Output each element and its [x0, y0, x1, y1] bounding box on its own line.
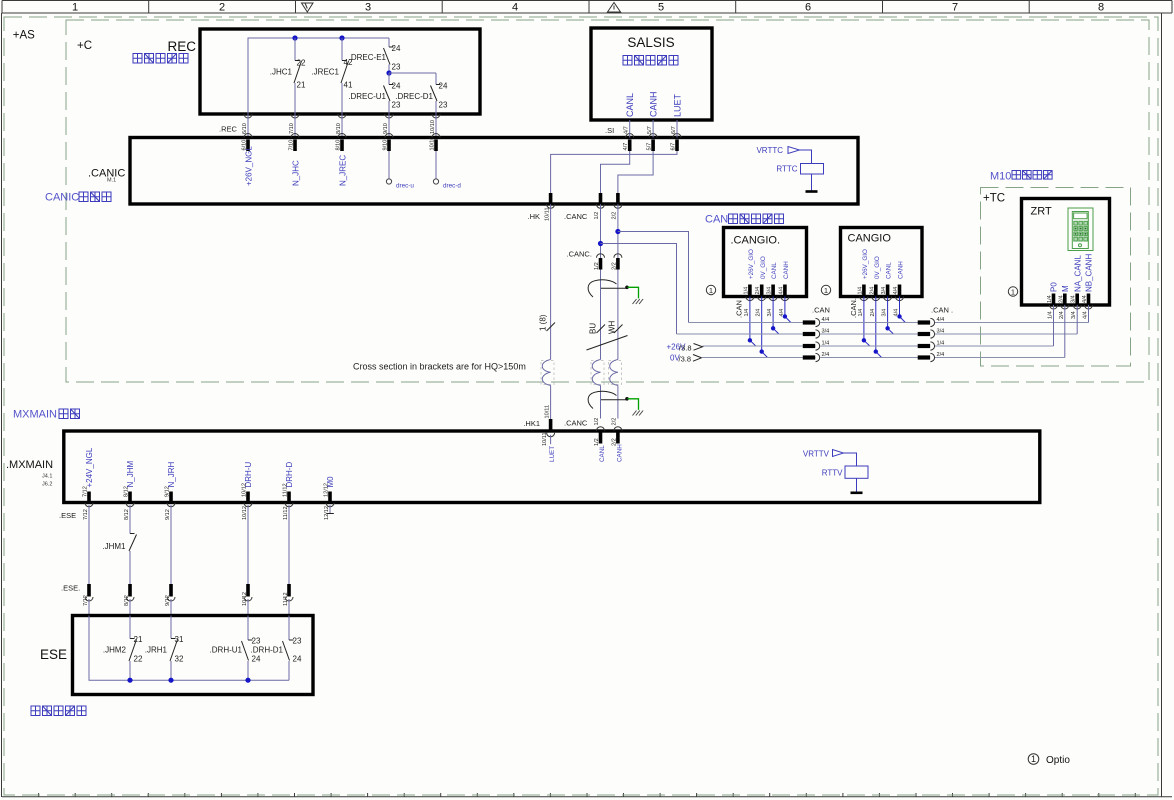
svg-text:.DREC-D1: .DREC-D1: [395, 92, 433, 101]
pin labels ZRT inside: [1047, 295, 1088, 303]
box ESE (machine room inspection box): [73, 616, 314, 695]
wires .ESE. to ESE box: [89, 599, 289, 616]
ground symbol lower: [633, 411, 644, 416]
pin bars CANIC bottom: [551, 193, 618, 204]
bus wire 4/4 CANH: [689, 322, 1089, 324]
svg-text:4/7: 4/7: [623, 143, 629, 151]
wire JRH1 lower: [170, 661, 172, 680]
svg-text:3/4: 3/4: [1071, 295, 1077, 303]
svg-text:31: 31: [175, 635, 184, 644]
svg-text:/3.8: /3.8: [679, 344, 692, 353]
svg-text:2/4: 2/4: [756, 309, 762, 317]
shield lower: [588, 391, 626, 408]
wire DREC-U1 upper: [388, 73, 390, 85]
svg-text:23: 23: [293, 637, 302, 646]
svg-text:.DREC-U1: .DREC-U1: [348, 92, 386, 101]
svg-text:ZRT: ZRT: [1031, 206, 1052, 218]
svg-text:3/4: 3/4: [1071, 311, 1077, 319]
svg-text:9/12: 9/12: [165, 595, 171, 606]
pin bars ZRT: [1054, 294, 1089, 305]
switch .DRH-D1: [283, 640, 294, 661]
pin labels MXMAIN bottom inside: [83, 483, 330, 497]
svg-text:CANH: CANH: [783, 261, 790, 279]
svg-text:24: 24: [293, 655, 302, 664]
box CANGIO: [841, 228, 923, 297]
svg-text:.CANC: .CANC: [564, 419, 588, 428]
svg-text:2/2: 2/2: [612, 418, 618, 426]
svg-text:.CAN: .CAN: [735, 300, 744, 318]
connector arcs CANIC top edge (REC side): [244, 134, 440, 138]
bottom scale ticks: [39, 793, 1136, 797]
svg-text:.JRH1: .JRH1: [145, 646, 168, 655]
svg-text:10/10: 10/10: [430, 120, 436, 134]
svg-text:MXMAIN: MXMAIN: [13, 409, 57, 421]
connector .ESE. pin bars: [89, 584, 289, 597]
connector .CANC. pin bars: [601, 258, 618, 270]
pin bars CANC lower: [601, 433, 618, 444]
box MXMAIN (main board): [64, 431, 1040, 503]
wire REC supply riser and top bus: [248, 38, 389, 114]
svg-text:1: 1: [72, 2, 78, 14]
ground RTTV: [851, 491, 863, 494]
switch .DREC-U1: [384, 85, 394, 102]
area +TC dashed border: [981, 188, 1131, 367]
svg-text:7/12: 7/12: [83, 509, 89, 520]
connector arcs CANC lower: [597, 427, 622, 431]
wire HK LUET riser: [550, 204, 552, 419]
wire JREC1 lower: [341, 83, 343, 114]
svg-text:drec-d: drec-d: [443, 183, 461, 190]
svg-text:1: 1: [824, 286, 828, 295]
svg-text:4/4: 4/4: [893, 287, 899, 295]
wire DREC-E1 upper: [388, 38, 390, 47]
svg-text:Optio: Optio: [1046, 755, 1070, 766]
shield upper earth wire: [628, 287, 639, 298]
svg-text:2/2: 2/2: [612, 262, 618, 270]
svg-text:10/11: 10/11: [544, 405, 550, 419]
svg-text:.ESE.: .ESE.: [61, 584, 80, 593]
svg-text:23: 23: [439, 101, 448, 110]
pin labels REC-CANIC outside: [242, 120, 436, 134]
wire CANH branch to bus: [618, 232, 689, 323]
ground symbol upper: [633, 299, 644, 304]
svg-text:.CAN .: .CAN .: [931, 306, 953, 315]
wire CANL riser: [600, 204, 602, 418]
wires SALSIS to CANIC: [630, 120, 677, 138]
pin bars CANGIO: [864, 285, 900, 297]
svg-text:1 (8): 1 (8): [539, 314, 548, 331]
box CANIC (car top board): [130, 138, 858, 205]
svg-text:8/10: 8/10: [336, 140, 342, 151]
svg-text:23: 23: [252, 637, 261, 646]
svg-text:2/4: 2/4: [1059, 311, 1065, 319]
pin labels below CANGIO: [858, 309, 900, 317]
pin bars CANIC top (SALSIS side): [630, 140, 677, 152]
svg-text:9/12: 9/12: [165, 509, 171, 520]
svg-text:.JHM2: .JHM2: [103, 646, 127, 655]
wire DREC-E1 lower: [388, 65, 390, 74]
svg-text:CANL: CANL: [771, 262, 778, 279]
svg-text:3: 3: [365, 2, 371, 14]
svg-text:1/2: 1/2: [594, 262, 600, 270]
svg-text:+TC: +TC: [983, 193, 1005, 205]
node bus-JREC1: [339, 35, 344, 40]
label REC chinese: [133, 54, 188, 64]
wire VRTTV to RTTV: [844, 453, 857, 466]
wires MXMAIN to ESE: [89, 505, 289, 584]
svg-text:M.1: M.1: [107, 178, 116, 184]
svg-text:0V_GIO: 0V_GIO: [760, 256, 767, 279]
svg-text:.JHC1: .JHC1: [270, 68, 293, 77]
signal labels ZRT: [1050, 254, 1094, 292]
svg-text:11/12: 11/12: [283, 506, 289, 520]
connector arcs REC bottom edge: [244, 114, 440, 118]
switch .JHM2: [129, 639, 137, 662]
connector arcs CANGIO bottom: [860, 297, 904, 301]
warning triangle: [608, 3, 621, 13]
svg-text:CANL: CANL: [599, 445, 606, 462]
wire SI-4/7 to CANC-1/2: [601, 151, 630, 193]
svg-text:+C: +C: [77, 40, 92, 52]
svg-text:1: 1: [709, 286, 713, 295]
stub M0 12/12: [329, 505, 331, 513]
svg-text:5/7: 5/7: [647, 126, 653, 134]
svg-text:M10: M10: [990, 171, 1011, 183]
cable slash CANH: [614, 325, 623, 334]
shield lower earth wire: [628, 399, 639, 410]
signal labels CANIC (REC side): [245, 146, 348, 186]
svg-text:3/4: 3/4: [881, 287, 887, 295]
pair group slash: [587, 336, 628, 351]
svg-text:6/10: 6/10: [242, 123, 248, 134]
svg-text:.REC: .REC: [219, 125, 238, 134]
svg-text:CANGIO: CANGIO: [848, 233, 892, 245]
cable slash CANL: [597, 325, 606, 334]
svg-text:0V_GIO: 0V_GIO: [874, 256, 881, 279]
coil HK: [542, 360, 550, 386]
pin labels SI outside: [624, 126, 677, 134]
svg-text:2/4: 2/4: [869, 287, 875, 295]
svg-text:4/4: 4/4: [778, 287, 784, 295]
connector arcs CANIC bottom edge: [547, 204, 622, 208]
svg-text:.JREC1: .JREC1: [311, 68, 339, 77]
pin labels below .CANGIO.: [744, 309, 785, 317]
wire DREC-D1 lower: [435, 101, 437, 114]
revision triangle: [302, 3, 314, 12]
svg-text:2: 2: [219, 2, 225, 14]
switch .JREC1: [341, 61, 349, 84]
box ZRT (landing call terminal): [1022, 199, 1110, 306]
connector .ESE. arcs: [85, 597, 293, 601]
wire DREC-U1 lower: [388, 101, 390, 114]
wire DREC-D1 upper: [435, 73, 437, 85]
svg-text:.SI: .SI: [605, 126, 614, 135]
svg-text:4/4: 4/4: [822, 317, 830, 323]
connector arc .HK1: [547, 433, 555, 437]
svg-text:7: 7: [952, 2, 958, 14]
svg-text:CANIC: CANIC: [45, 192, 79, 204]
svg-text:REC: REC: [167, 39, 196, 54]
svg-text:32: 32: [175, 655, 184, 664]
svg-text:+26V_GIO: +26V_GIO: [862, 249, 869, 279]
switch .DREC-D1: [431, 85, 441, 102]
svg-text:4/4: 4/4: [1082, 295, 1088, 303]
nodes CANGIO: [862, 338, 866, 342]
node CANL branch: [598, 241, 603, 246]
node JHM2 bus: [127, 678, 132, 683]
svg-text:+26V_GIO: +26V_GIO: [748, 249, 755, 279]
node bus-JHC1: [292, 35, 297, 40]
svg-text:6/7: 6/7: [671, 126, 677, 134]
svg-text:2/4: 2/4: [822, 352, 830, 358]
svg-text:10/11: 10/11: [542, 432, 548, 446]
svg-text:+24V_NGL: +24V_NGL: [85, 447, 94, 487]
svg-text:3/4: 3/4: [767, 287, 773, 295]
pin labels .ESE.: [83, 592, 289, 606]
svg-text:N_JREC: N_JREC: [339, 155, 348, 186]
connector arcs right: [930, 318, 934, 361]
shield upper: [588, 280, 626, 297]
wire RTTC to ground: [811, 174, 813, 191]
svg-text:9/10: 9/10: [383, 140, 389, 151]
svg-text:.JHM1: .JHM1: [102, 542, 126, 551]
svg-text:+26V_NGL: +26V_NGL: [245, 146, 254, 186]
svg-text:2/4: 2/4: [870, 309, 876, 317]
svg-text:9/10: 9/10: [383, 123, 389, 134]
wire JHC1 upper: [294, 38, 296, 61]
coil CANH: [610, 360, 618, 386]
svg-text:21: 21: [134, 635, 143, 644]
svg-text:3/4: 3/4: [822, 329, 830, 335]
switch .JRH1: [170, 639, 178, 662]
svg-text:21: 21: [297, 81, 306, 90]
wire JHC1 lower: [294, 83, 296, 114]
svg-text:2/4: 2/4: [937, 352, 945, 358]
connector arcs .CANGIO. bottom: [746, 297, 789, 301]
drop wires .CANGIO.: [750, 297, 791, 358]
svg-text:10/11: 10/11: [544, 207, 550, 221]
switch .JHC1: [294, 61, 302, 84]
svg-text:1/2: 1/2: [594, 418, 600, 426]
pin bars MXMAIN bottom: [89, 492, 330, 503]
svg-text:41: 41: [344, 81, 353, 90]
svg-text:1/4: 1/4: [822, 341, 830, 347]
label SALSIS chinese: [623, 56, 678, 66]
svg-text:.CANC.: .CANC.: [567, 250, 592, 259]
cable slash HK: [547, 323, 556, 332]
svg-text:CANL: CANL: [625, 93, 635, 117]
svg-text:4/4: 4/4: [937, 317, 945, 323]
svg-text:2/4: 2/4: [1058, 295, 1064, 303]
pin labels .CANGIO. inside: [743, 287, 784, 295]
svg-text:3/4: 3/4: [882, 309, 888, 317]
svg-text:.HK: .HK: [528, 212, 541, 221]
svg-text:.CANC: .CANC: [564, 212, 588, 221]
wire DRH-U1 lower: [247, 661, 249, 680]
node JRH1 bus: [168, 678, 173, 683]
svg-text:CANL: CANL: [886, 262, 893, 279]
svg-text:8/12: 8/12: [124, 509, 130, 520]
ground RTTC: [806, 190, 818, 193]
svg-text:.DRH-D1: .DRH-D1: [251, 646, 284, 655]
svg-text:J6.2: J6.2: [42, 482, 52, 488]
svg-text:22: 22: [134, 655, 143, 664]
svg-text:N_JHC: N_JHC: [292, 160, 301, 186]
pin bars CANIC top (REC side): [248, 140, 436, 152]
nodes .CANGIO.: [748, 338, 752, 342]
svg-text:NB_CANH: NB_CANH: [1085, 254, 1094, 292]
wire CANH riser: [617, 204, 619, 418]
svg-text:6: 6: [805, 2, 811, 14]
option mark 1 left: [706, 285, 715, 295]
node CANH branch: [615, 229, 620, 234]
wire DREC cross link: [389, 72, 436, 74]
svg-text:VRTTV: VRTTV: [803, 450, 830, 459]
svg-text:24: 24: [439, 82, 448, 91]
svg-text:.CAN.: .CAN.: [849, 298, 858, 318]
svg-text:10/12: 10/12: [242, 592, 248, 606]
signal labels CANGIO: [862, 249, 905, 279]
connector arcs MXMAIN bottom: [85, 503, 334, 507]
svg-text:CANH: CANH: [616, 444, 623, 462]
signal labels SALSIS: [625, 91, 682, 117]
svg-text:LUET: LUET: [549, 446, 556, 462]
svg-text:RTTC: RTTC: [776, 165, 797, 174]
svg-text:ESE: ESE: [40, 647, 67, 662]
svg-text:1/4: 1/4: [1047, 295, 1053, 303]
cable bars right connector: [918, 323, 930, 358]
wire RTTV to ground: [856, 478, 858, 492]
wire JHM2 upper: [129, 616, 131, 639]
signal labels MXMAIN bottom: [85, 447, 335, 487]
label ESE chinese: [31, 706, 86, 716]
svg-text:drec-u: drec-u: [396, 183, 414, 190]
svg-text:4/7: 4/7: [624, 126, 630, 134]
wire VRTTC to RTTC: [800, 150, 812, 164]
svg-text:CANH: CANH: [898, 261, 905, 279]
pin labels CANGIO inside: [857, 287, 899, 295]
coil boxes dashed: [541, 361, 622, 385]
svg-text:10/12: 10/12: [242, 506, 248, 520]
wire JRH1 upper: [170, 616, 172, 639]
stub LUET: [550, 435, 552, 444]
wire drec-d stub: [435, 151, 437, 179]
svg-text:8: 8: [1098, 2, 1104, 14]
option mark 1 ZRT: [1008, 287, 1017, 297]
svg-text:4/4: 4/4: [1083, 311, 1089, 319]
wire DRH-D1 lower: [288, 661, 290, 680]
cable bars mid connector: [803, 323, 815, 358]
svg-text:1/2: 1/2: [594, 438, 600, 446]
svg-text:/3.8: /3.8: [679, 355, 692, 364]
svg-text:24: 24: [252, 655, 261, 664]
svg-text:NA_CANL: NA_CANL: [1073, 255, 1082, 292]
svg-text:P0: P0: [1050, 282, 1059, 292]
svg-text:22: 22: [297, 59, 306, 68]
svg-text:.DRH-U1: .DRH-U1: [210, 646, 243, 655]
svg-text:1/4: 1/4: [744, 309, 750, 317]
svg-text:1/4: 1/4: [858, 309, 864, 317]
svg-text:8/10: 8/10: [336, 123, 342, 134]
svg-text:7/10: 7/10: [289, 123, 295, 134]
svg-text:11/12: 11/12: [283, 592, 289, 606]
svg-text:8/12: 8/12: [124, 595, 130, 606]
option mark 1 middle: [821, 285, 830, 295]
svg-text:3/4: 3/4: [767, 309, 773, 317]
svg-text:5: 5: [658, 2, 664, 14]
svg-text:1/2: 1/2: [594, 212, 600, 220]
pin labels MXMAIN bottom outside: [83, 506, 330, 520]
svg-text:2/4: 2/4: [755, 287, 761, 295]
signal labels .CANGIO.: [748, 249, 790, 279]
svg-text:3/4: 3/4: [937, 329, 945, 335]
svg-text:6/7: 6/7: [671, 143, 677, 151]
bus wire 1/4 +26V: [703, 345, 1054, 347]
connector arcs ZRT bottom: [1050, 305, 1093, 309]
svg-text:J4.1: J4.1: [42, 474, 52, 480]
wire CANL branch to bus: [601, 244, 677, 335]
pin labels right connector: [937, 317, 945, 358]
svg-text:SALSIS: SALSIS: [627, 35, 674, 50]
pin bars .CANGIO.: [750, 285, 785, 297]
wire SI-5/7 to CANC-2/2: [618, 151, 653, 193]
coil CANL: [592, 360, 600, 386]
svg-text:.DREC-E1: .DREC-E1: [349, 53, 387, 62]
wires REC to CANIC: [248, 114, 436, 138]
bus wire 2/4 0V: [702, 357, 1065, 359]
svg-text:.MXMAIN: .MXMAIN: [6, 459, 53, 471]
svg-text:1/4: 1/4: [1048, 311, 1054, 319]
svg-text:1/4: 1/4: [857, 287, 863, 295]
riser wires ZRT: [1054, 305, 1089, 358]
connector arcs CANIC top edge (SALSIS side): [626, 134, 681, 138]
pin labels mid connector: [822, 317, 830, 358]
drop wires CANGIO: [864, 297, 905, 358]
box .CANGIO.: [724, 228, 807, 297]
svg-text:1/4: 1/4: [743, 287, 749, 295]
node DREC junction: [386, 70, 391, 75]
svg-text:M: M: [1061, 285, 1070, 292]
svg-text:1/4: 1/4: [937, 341, 945, 347]
keypad icon: [1068, 208, 1093, 251]
svg-text:24: 24: [392, 82, 401, 91]
wire JHM2 lower: [129, 661, 131, 680]
connector .CANC. arcs: [597, 254, 622, 258]
svg-text:CANH: CANH: [649, 91, 659, 117]
svg-text:VRTTC: VRTTC: [756, 146, 783, 155]
wire drec-u stub: [388, 151, 390, 179]
pin labels CANIC top inside: [242, 137, 436, 151]
svg-text:23: 23: [392, 101, 401, 110]
svg-text:+AS: +AS: [13, 29, 35, 41]
svg-text:10/10: 10/10: [430, 137, 436, 151]
svg-text:7/10: 7/10: [289, 140, 295, 151]
svg-text:4: 4: [512, 2, 518, 14]
switch .DREC-E1: [384, 47, 394, 65]
svg-text:1: 1: [1031, 754, 1036, 764]
svg-text:CAN: CAN: [705, 214, 728, 226]
svg-text:7/12: 7/12: [83, 595, 89, 606]
wire SI-6/7 to HK-10/11: [551, 151, 677, 193]
svg-text:.CAN: .CAN: [812, 306, 830, 315]
svg-text:2/2: 2/2: [612, 212, 618, 220]
svg-text:Cross section in brackets are: Cross section in brackets are for HQ>150…: [353, 362, 526, 372]
node DRH-U1 bus: [245, 678, 250, 683]
svg-text:BU: BU: [589, 323, 598, 334]
switch .JHM1: [129, 534, 137, 552]
svg-text:.CANGIO.: .CANGIO.: [731, 235, 781, 247]
svg-text:1: 1: [1011, 287, 1015, 296]
